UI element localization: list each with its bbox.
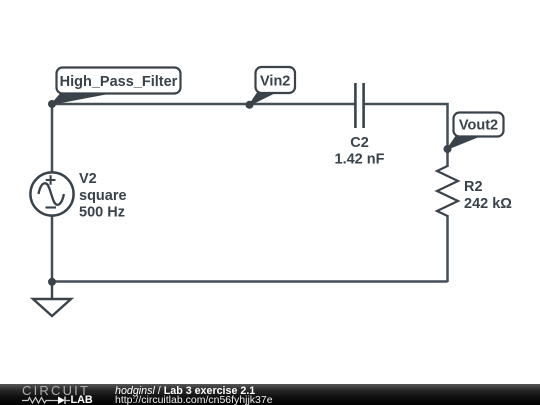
resistor R2 — [437, 166, 458, 216]
voltage source V2 — [30, 172, 73, 215]
node Vin2 junction dot — [246, 101, 254, 109]
svg-text:500 Hz: 500 Hz — [79, 205, 125, 221]
svg-text:R2: R2 — [464, 179, 483, 195]
node Vout2 junction dot — [444, 145, 452, 153]
wire: right vertical lead from R2 bottom to bottom net — [446, 215, 449, 282]
resistor R2 value label — [464, 179, 512, 212]
wire: left vertical from node down to V2 top terminal — [51, 104, 54, 173]
wire: top net segment from High_Pass_Filter node to C2 left plate — [52, 103, 355, 106]
CircuitLab logo — [15, 384, 115, 405]
svg-text:Vin2: Vin2 — [260, 74, 290, 90]
svg-text:High_Pass_Filter: High_Pass_Filter — [60, 74, 178, 90]
ground — [33, 282, 71, 316]
wire: bottom return net — [52, 280, 448, 283]
svg-text:V2: V2 — [79, 171, 97, 187]
capacitor C2 value label — [335, 135, 385, 168]
svg-text:C2: C2 — [350, 135, 369, 151]
footer title text line 1 — [115, 387, 255, 396]
node flag High_Pass_Filter — [52, 68, 181, 105]
footer url text line 2 — [115, 396, 273, 405]
wire: top net segment from C2 right plate to top-right corner — [364, 104, 448, 150]
node flag Vout2 — [448, 113, 504, 150]
voltage source V2 value label — [79, 171, 127, 221]
wire: right vertical lead from Vout2 node into R2 — [446, 149, 449, 167]
footer bar — [0, 384, 540, 405]
svg-text:Vout2: Vout2 — [459, 118, 498, 134]
svg-text:242 kΩ: 242 kΩ — [464, 196, 512, 212]
node flag Vin2 — [250, 67, 296, 105]
capacitor C2 — [355, 83, 363, 128]
node: ground junction dot — [48, 278, 56, 286]
svg-text:1.42 nF: 1.42 nF — [335, 152, 385, 168]
svg-text:LAB: LAB — [71, 394, 93, 405]
wire: left vertical from V2 bottom terminal to ground node — [51, 215, 54, 282]
node High_Pass_Filter junction dot — [48, 100, 56, 108]
svg-text:square: square — [79, 188, 127, 204]
